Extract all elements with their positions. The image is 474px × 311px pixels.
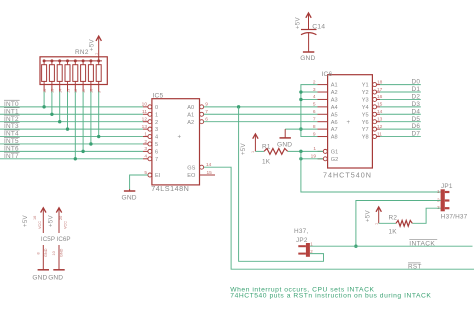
svg-text:6: 6 (155, 149, 158, 155)
svg-text:16: 16 (33, 216, 37, 220)
svg-text:1: 1 (375, 223, 379, 225)
svg-text:JP2: JP2 (296, 237, 308, 244)
svg-text:H37,: H37, (294, 228, 308, 235)
svg-text:D1: D1 (412, 86, 421, 93)
net label RST (408, 263, 422, 271)
svg-text:A0: A0 (187, 105, 194, 111)
wire Y7 to D6 (380, 128, 421, 130)
svg-text:74LS148N: 74LS148N (151, 184, 189, 193)
svg-text:INTACK: INTACK (409, 240, 435, 247)
svg-text:G2: G2 (331, 157, 338, 163)
svg-text:Y8: Y8 (362, 135, 369, 141)
svg-text:4: 4 (144, 154, 147, 160)
svg-text:G1: G1 (331, 149, 338, 155)
wire JP1 pin 3 to R2 (412, 208, 440, 223)
svg-text:A2: A2 (187, 120, 194, 126)
wire Y4 to D3 (380, 106, 421, 108)
svg-text:+5V: +5V (364, 210, 371, 222)
svg-text:GND: GND (44, 248, 48, 257)
svg-text:7: 7 (313, 117, 316, 123)
svg-text:EO: EO (187, 173, 196, 179)
svg-text:20: 20 (59, 216, 63, 220)
wire A7 to ground (285, 128, 317, 130)
svg-text:D2: D2 (412, 94, 421, 101)
ground GND below C14 (300, 33, 315, 62)
svg-text:GND: GND (60, 248, 64, 257)
svg-text:Y2: Y2 (362, 90, 369, 96)
svg-text:D4: D4 (412, 108, 421, 115)
svg-text:1: 1 (95, 53, 99, 55)
IC6 enable pins G1 G2 (311, 146, 328, 161)
svg-text:1: 1 (144, 131, 147, 137)
IC6 output pins Y1-Y8 (373, 79, 383, 138)
svg-text:Y6: Y6 (362, 120, 369, 126)
resistor R2 1K (389, 215, 413, 236)
wire Y2 to D1 (380, 91, 421, 93)
pin header JP1 (437, 183, 468, 220)
+5V supply for C14 (295, 13, 312, 30)
svg-text:15: 15 (207, 170, 213, 176)
svg-text:A1: A1 (331, 83, 338, 89)
net label INT3 (4, 123, 20, 131)
svg-text:C14: C14 (312, 23, 325, 30)
wire +5V to R1 (255, 150, 264, 152)
svg-text:Y1: Y1 (362, 83, 369, 89)
svg-text:+5V: +5V (240, 143, 247, 155)
junction INT5 (89, 142, 92, 145)
svg-text:A4: A4 (331, 105, 338, 111)
ground GND at IC6 inputs (277, 129, 292, 148)
svg-text:A1: A1 (187, 112, 194, 118)
svg-text:1K: 1K (262, 158, 271, 165)
wire RN2 resistor 7 to INT5 (90, 85, 92, 92)
svg-text:Y3: Y3 (362, 98, 369, 104)
wire RN2 resistor 2 to INT1 (51, 85, 53, 92)
ground pin IC6P (48, 245, 64, 282)
wire INT2 (0, 121, 143, 123)
wire INT4 (0, 136, 143, 138)
RN2 +5V supply arrow (89, 36, 102, 61)
wire RN2 resistor 1 to INT0 (43, 85, 45, 92)
svg-text:6: 6 (313, 109, 316, 115)
+5V supply for R1 (240, 134, 258, 155)
IC5 GS EO pins (200, 162, 216, 176)
IC6 input pins A1-A8 (313, 79, 328, 137)
svg-text:7: 7 (155, 157, 158, 163)
svg-text:2: 2 (144, 139, 147, 145)
svg-text:13: 13 (142, 124, 148, 130)
resistor R1 1K (262, 143, 288, 165)
wire RN2 resistor 6 to INT6 (82, 85, 84, 92)
junction INT1 (50, 113, 53, 116)
svg-text:16: 16 (43, 89, 47, 93)
net label INTACK (409, 240, 437, 248)
junction G2 (299, 157, 302, 160)
wire INT3 (0, 128, 143, 130)
svg-text:12: 12 (74, 89, 78, 93)
info text (230, 287, 431, 300)
svg-text:2: 2 (437, 198, 440, 203)
svg-text:A7: A7 (331, 127, 338, 133)
svg-text:D3: D3 (412, 101, 421, 108)
wire RN2 resistor 5 to INT7 (74, 85, 76, 92)
svg-text:3: 3 (144, 146, 147, 152)
wire INTACK net (310, 245, 473, 247)
wire Y1 to D0 (380, 84, 421, 86)
svg-text:GND: GND (48, 275, 63, 282)
power symbol IC6P (48, 208, 71, 243)
svg-text:+5V: +5V (22, 215, 29, 227)
svg-text:Y5: Y5 (362, 112, 369, 118)
svg-text:+5V: +5V (48, 215, 55, 227)
wire Y3 to D2 (380, 98, 421, 100)
svg-text:A2: A2 (331, 90, 338, 96)
svg-text:4: 4 (155, 135, 158, 141)
svg-text:Y7: Y7 (362, 127, 369, 133)
svg-text:Y4: Y4 (362, 105, 369, 111)
svg-text:11: 11 (82, 89, 86, 93)
+5V supply for R2 (364, 207, 381, 225)
wire INT1 (0, 113, 143, 115)
wire Y6 to D5 (380, 121, 421, 123)
svg-text:+: + (347, 120, 351, 126)
wire A2 from IC5 to IC6 (204, 121, 318, 123)
wire A0 from IC5 to IC6 (204, 106, 318, 108)
net label INT2 (4, 115, 20, 123)
junction INT6 (81, 150, 84, 153)
svg-text:VCC: VCC (63, 221, 67, 229)
wire EI to ground (130, 175, 148, 189)
ground GND at IC5 EI (122, 189, 137, 202)
svg-text:5: 5 (313, 102, 316, 108)
wire grounded inputs A1 A2 A3 (301, 85, 318, 137)
junction A3 (299, 98, 302, 101)
svg-text:1: 1 (437, 189, 440, 194)
resistor network RN2 (40, 49, 107, 85)
svg-text:GND: GND (32, 275, 47, 282)
svg-text:D5: D5 (412, 116, 421, 123)
junction INT4 (97, 135, 100, 138)
junction on A0 net (237, 105, 240, 108)
svg-text:A6: A6 (331, 120, 338, 126)
svg-text:D0: D0 (412, 79, 421, 86)
RN2 pin numbers (43, 89, 102, 93)
svg-text:13: 13 (66, 89, 70, 93)
svg-text:2: 2 (155, 120, 158, 126)
wire G2 tap (301, 158, 323, 160)
svg-text:1: 1 (251, 151, 255, 153)
svg-text:74HCT540 puts a RSTn instructi: 74HCT540 puts a RSTn instruction on bus … (230, 293, 431, 300)
svg-text:+5V: +5V (89, 39, 96, 51)
svg-text:VCC: VCC (38, 221, 42, 229)
wire Y8 to D7 (380, 136, 421, 138)
junction INT3 (66, 127, 69, 130)
svg-text:R1: R1 (262, 143, 271, 150)
wire GS to RST (204, 167, 474, 269)
wire +5V to R2 (379, 222, 396, 224)
svg-text:EI: EI (155, 173, 161, 179)
svg-text:IC6: IC6 (322, 71, 333, 78)
wire RN2 resistor 8 to INT4 (98, 85, 100, 92)
wire R1 to G1 (288, 150, 323, 152)
net label INT5 (4, 137, 20, 145)
svg-text:RST: RST (408, 264, 422, 271)
junction INT2 (58, 120, 61, 123)
svg-text:GS: GS (187, 165, 195, 171)
wire Y5 to D4 (380, 113, 421, 115)
power symbol IC5P (22, 208, 55, 243)
net label INT4 (4, 130, 20, 138)
IC 74LS148N U/IC5 body (151, 93, 199, 193)
svg-text:3: 3 (437, 205, 440, 210)
junction G1 (299, 150, 302, 153)
svg-text:IC6P: IC6P (57, 236, 71, 243)
svg-text:D7: D7 (412, 131, 421, 138)
svg-text:A5: A5 (331, 112, 338, 118)
svg-text:1: 1 (155, 112, 158, 118)
wire A1 from IC5 to IC6 (204, 113, 318, 115)
svg-text:5: 5 (155, 142, 158, 148)
svg-text:D6: D6 (412, 123, 421, 130)
svg-text:0: 0 (155, 105, 158, 111)
IC5 input pins (142, 102, 152, 177)
svg-text:14: 14 (59, 89, 63, 93)
junction A2 (299, 90, 302, 93)
svg-text:GND: GND (122, 195, 137, 202)
svg-text:10: 10 (142, 102, 148, 108)
wire JP1 pin 2 to INTACK (356, 201, 441, 247)
svg-text:IC5P: IC5P (41, 236, 55, 243)
svg-text:R2: R2 (389, 215, 398, 222)
wire INT5 (0, 143, 143, 145)
wire RN2 resistor 3 to INT2 (59, 85, 61, 92)
svg-text:RN2: RN2 (75, 49, 89, 56)
svg-text:11: 11 (142, 109, 147, 115)
svg-text:A3: A3 (331, 98, 338, 104)
svg-text:1K: 1K (389, 228, 398, 235)
svg-text:IC5: IC5 (153, 93, 164, 100)
svg-text:GND: GND (300, 55, 315, 62)
IC 74HCT540N IC6 body (322, 71, 373, 179)
wire INT6 (0, 150, 143, 152)
svg-text:10: 10 (90, 89, 94, 93)
junction INT7 (74, 157, 77, 160)
wire RN2 resistor 4 to INT3 (67, 85, 69, 92)
junction A7 (299, 127, 302, 130)
svg-text:+5V: +5V (295, 17, 302, 29)
svg-text:A8: A8 (331, 135, 338, 141)
capacitor C14 (301, 23, 325, 34)
svg-text:8: 8 (37, 252, 41, 254)
junction INT0 (42, 105, 45, 108)
svg-text:9: 9 (98, 91, 102, 93)
svg-text:JP1: JP1 (441, 183, 453, 190)
IC5 output pins A0 A1 A2 (200, 102, 209, 124)
net label INT6 (4, 145, 20, 153)
net label INT0 (4, 100, 20, 108)
svg-text:H37/H37: H37/H37 (441, 213, 468, 220)
wire INT7 (0, 158, 143, 160)
svg-text:12: 12 (142, 117, 148, 123)
net label INT7 (4, 152, 20, 160)
junction INTACK (354, 245, 357, 248)
svg-text:10: 10 (52, 251, 56, 255)
ground pin IC5P (32, 245, 49, 282)
svg-text:15: 15 (51, 89, 55, 93)
jumper JP2 (294, 228, 313, 257)
svg-text:+: + (178, 135, 182, 141)
svg-text:74HCT540N: 74HCT540N (323, 170, 372, 179)
wire A0 net down to JP2 pin 2 loop (239, 107, 324, 261)
net label INT1 (4, 108, 20, 116)
wire enable net to JP1 pin 1 (301, 151, 441, 192)
wire INT0 (0, 106, 143, 108)
svg-text:3: 3 (155, 127, 158, 133)
